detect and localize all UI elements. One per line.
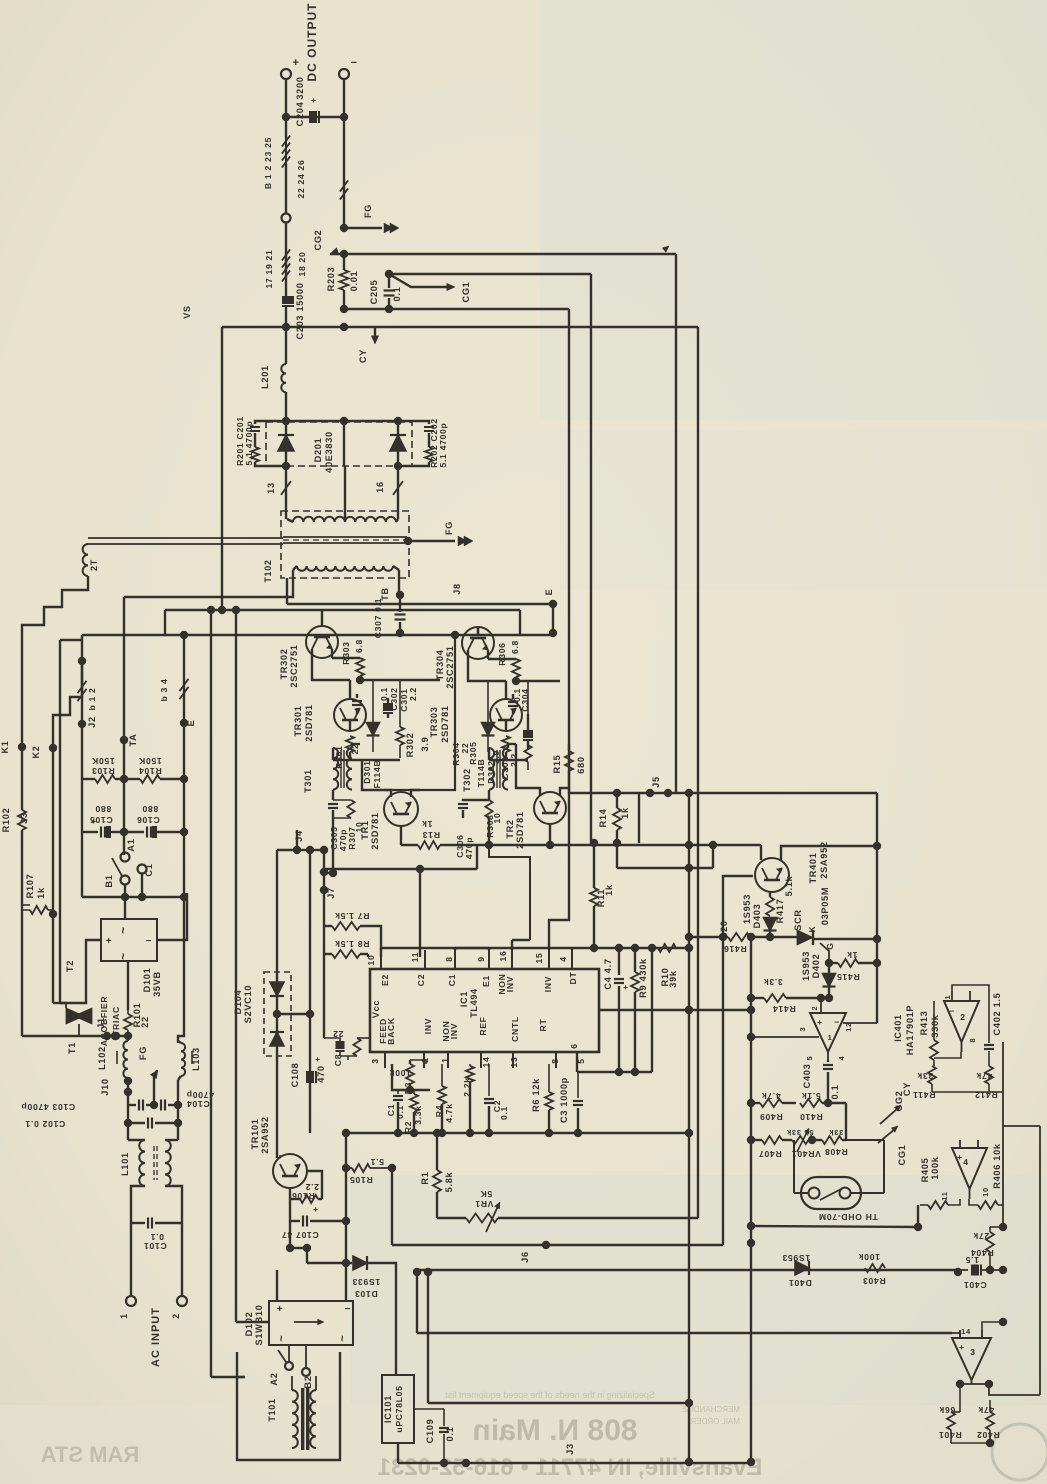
wire TR304 E branch: [477, 627, 479, 635]
capacitor C304 0.1: [512, 694, 514, 699]
wire TA line: [123, 597, 125, 855]
wire K2 down: [52, 748, 54, 1003]
svg-text:~: ~: [337, 1334, 349, 1341]
resistor R401 66k: [959, 1384, 961, 1412]
wire drive line y610: [165, 609, 520, 611]
svg-text:CY: CY: [358, 349, 368, 363]
svg-text:5K: 5K: [480, 1189, 492, 1199]
svg-text:680: 680: [576, 756, 586, 773]
svg-text:R4: R4: [434, 1105, 444, 1117]
svg-text:INV: INV: [449, 1023, 459, 1039]
terminal - DC output: [339, 69, 349, 79]
capacitor C2 0.1: [488, 1064, 490, 1096]
wire pin11 drop: [367, 954, 369, 957]
svg-text:T302: T302: [462, 768, 472, 792]
T102 core: [283, 536, 407, 538]
wire TR301 collector: [312, 658, 350, 680]
svg-text:R402: R402: [976, 1430, 999, 1440]
capacitor C4 4.7: [618, 948, 620, 975]
svg-text:TR101: TR101: [250, 1118, 260, 1149]
wire branch x520: [519, 610, 521, 635]
connector circle on + rail: [282, 214, 291, 223]
node J1: [103, 1032, 111, 1040]
resistor R5 2.2k: [469, 1064, 471, 1066]
resistor R203 0.01: [340, 270, 349, 290]
resistor R405 100k: [928, 1201, 948, 1209]
resistor R6 12k: [548, 1064, 550, 1092]
wire K1 down to triac: [21, 905, 23, 1036]
svg-text:C1: C1: [144, 863, 154, 876]
svg-text:2SD781: 2SD781: [370, 812, 380, 849]
T102 primary winding: [297, 566, 393, 571]
svg-text:5.1k: 5.1k: [801, 1091, 821, 1101]
wire L103 top: [178, 940, 184, 1041]
svg-text:TA: TA: [128, 734, 138, 747]
resistor R11 1k: [590, 839, 598, 847]
svg-text:17 19 21: 17 19 21: [264, 249, 274, 288]
wire TR303 collector: [468, 659, 506, 681]
svg-text:D402: D402: [811, 954, 821, 979]
svg-text:5.8k: 5.8k: [444, 1171, 454, 1192]
svg-text:D401: D401: [788, 1278, 811, 1288]
svg-text:0.01: 0.01: [349, 271, 359, 292]
svg-text:C102 0.1: C102 0.1: [25, 1119, 65, 1129]
wire + rail top: [285, 79, 287, 138]
svg-text:L102: L102: [97, 1046, 107, 1070]
svg-text:VR1: VR1: [475, 1199, 494, 1209]
svg-text:R407: R407: [758, 1149, 781, 1159]
svg-text:TRIAC: TRIAC: [111, 1006, 121, 1036]
wire TR401 base: [723, 876, 753, 1245]
wire TR2 base: [549, 824, 551, 845]
svg-text:C403: C403: [802, 1064, 812, 1089]
diode D401 1S953: [795, 1261, 809, 1275]
transistor TR401 2SA952: [755, 858, 789, 892]
svg-text:1k: 1k: [620, 807, 630, 819]
capacitor C3 1000p: [577, 1072, 579, 1098]
svg-text:C203 15000: C203 15000: [295, 282, 305, 339]
T102 primary left lead: [124, 570, 293, 597]
svg-text:TR1: TR1: [360, 820, 370, 839]
svg-text:S1WB10: S1WB10: [254, 1305, 264, 1346]
svg-text:−: −: [350, 57, 357, 69]
op-amp IC401 comparator 1: [810, 1013, 846, 1052]
wire drive left branch: [164, 610, 166, 635]
wire TR401 collector line y868: [617, 867, 713, 869]
op-amp IC401 comparator 4: [952, 1148, 987, 1189]
svg-text:TR303: TR303: [429, 706, 439, 737]
wire riser x392: [391, 1168, 393, 1245]
svg-text:L103: L103: [191, 1047, 201, 1071]
svg-text:15: 15: [534, 953, 544, 964]
svg-text:+: +: [959, 1342, 965, 1352]
svg-text:5.1: 5.1: [370, 1157, 384, 1167]
resistor R7 1.5k: [324, 925, 332, 927]
svg-text:E: E: [186, 720, 196, 727]
wire TR2 collector: [516, 744, 540, 796]
diode D402 1S953: [828, 962, 830, 973]
svg-text:Specializing in the needs of t: Specializing in the needs of the speed e…: [445, 1390, 655, 1400]
svg-text:2: 2: [810, 1006, 819, 1011]
svg-text:R13: R13: [422, 830, 440, 840]
capacitor C306 470p: [488, 790, 490, 800]
wire J4 vertical: [309, 850, 311, 1014]
svg-text:11: 11: [410, 952, 420, 962]
resistor R4 4.7k: [441, 1064, 443, 1086]
svg-text:16: 16: [375, 481, 385, 493]
svg-text:INV: INV: [543, 976, 553, 992]
svg-text:TR302: TR302: [279, 648, 289, 679]
wire - rail top: [343, 79, 345, 117]
resistor R303 6.8: [332, 657, 360, 659]
svg-text:−: −: [345, 1304, 352, 1315]
svg-text:150K: 150K: [91, 756, 114, 766]
node K1: [18, 743, 26, 751]
capacitor C8 22: [323, 958, 325, 1038]
transistor TR304 2SC2751: [462, 627, 494, 659]
wire T302 bottom: [488, 818, 490, 845]
capacitor C103 4700p: [128, 1104, 136, 1106]
svg-text:J1: J1: [96, 1017, 106, 1029]
wire TR101 collector top: [276, 1110, 278, 1158]
svg-text:C307 0.1: C307 0.1: [373, 598, 383, 638]
diode D302 T114B: [487, 681, 489, 722]
svg-text:3.9: 3.9: [420, 737, 430, 752]
thyristor SCR 03P05M: [770, 936, 797, 938]
svg-text:+: +: [292, 57, 299, 69]
svg-text:−: −: [834, 1017, 840, 1027]
resistor R102 33: [21, 747, 23, 810]
svg-text:J10: J10: [100, 1078, 110, 1095]
svg-text:DT: DT: [568, 972, 578, 985]
svg-text:R103: R103: [91, 766, 114, 776]
svg-text:1k: 1k: [604, 884, 614, 896]
svg-text:22: 22: [140, 1016, 150, 1028]
svg-text:1S933: 1S933: [352, 1277, 380, 1287]
svg-text:+: +: [315, 1054, 321, 1064]
svg-text:+: +: [311, 95, 317, 105]
svg-text:INV: INV: [423, 1018, 433, 1034]
svg-text:TL494: TL494: [469, 988, 479, 1018]
snubber R201 C201: [255, 421, 286, 424]
svg-text:+: +: [277, 1304, 284, 1315]
svg-text:D103: D103: [354, 1289, 377, 1299]
IC1 pin stubs top: [380, 950, 382, 969]
wire J5 to comparator rail x877: [876, 793, 878, 1023]
node K2: [49, 744, 57, 752]
svg-text:C1: C1: [447, 974, 457, 986]
wire E line left: [183, 723, 185, 940]
labels CY CG2 arrows: [880, 1108, 898, 1124]
T101 enclosure: [237, 1352, 340, 1460]
wire bus x236 to D102: [232, 606, 240, 614]
resistor R308 10: [485, 800, 492, 818]
svg-text:C109: C109: [425, 1419, 435, 1444]
resistor R417 5.1k: [769, 892, 771, 897]
svg-text:D102: D102: [244, 1312, 254, 1337]
svg-text:C205: C205: [369, 280, 379, 305]
inductor L102: [123, 1041, 128, 1078]
svg-text:R303: R303: [341, 641, 351, 664]
wire switch bottoms: [124, 884, 126, 919]
svg-text:R1: R1: [420, 1171, 430, 1184]
resistor R413 330k: [930, 1040, 938, 1060]
resistor R307 10: [333, 799, 351, 801]
resistor R10 39k: [658, 944, 676, 952]
svg-text:b 1 2: b 1 2: [87, 687, 97, 710]
svg-text:C107 47: C107 47: [281, 1230, 318, 1240]
svg-text:+: +: [957, 1152, 963, 1162]
capacitor C403 0.1: [827, 1060, 829, 1062]
wire 2T staircase to K1: [22, 576, 88, 747]
wire comp1 pin2 up: [820, 998, 822, 1013]
inductor L101: [139, 1140, 145, 1186]
svg-text:INV: INV: [505, 976, 515, 992]
svg-text:4.7k: 4.7k: [761, 1091, 781, 1101]
wire D104 tap: [277, 1013, 310, 1015]
wire J5 line: [569, 792, 877, 794]
svg-text:2SD781: 2SD781: [440, 705, 450, 742]
svg-text:D104: D104: [233, 989, 243, 1014]
svg-text:2: 2: [960, 1012, 965, 1022]
svg-text:E2: E2: [380, 974, 390, 986]
capacitor C109 0.1: [397, 1443, 399, 1463]
wire pin10 up: [380, 948, 382, 950]
transistor TR1 2SD781: [384, 792, 418, 826]
svg-text:880: 880: [95, 804, 111, 814]
svg-text:10: 10: [981, 1187, 990, 1197]
svg-text:R413: R413: [919, 1011, 929, 1036]
transistor TR303 2SD781: [490, 699, 522, 731]
wire pin9 up: [488, 948, 490, 950]
svg-text:CG2: CG2: [313, 230, 323, 251]
wire K node to rail: [829, 938, 877, 940]
svg-text:TR2: TR2: [505, 819, 515, 838]
svg-text:RAM STA: RAM STA: [41, 1442, 140, 1467]
svg-text:+: +: [91, 816, 97, 826]
wire pin16 up: [511, 940, 513, 950]
wire long line y1244 J6: [392, 1244, 723, 1246]
bridge rectifier D101 35VB: [101, 919, 157, 961]
resistor R402 47k: [986, 1412, 994, 1430]
resistor R105 5.1: [346, 1167, 352, 1169]
svg-text:R15: R15: [552, 755, 562, 774]
resistor R101 22: [127, 1010, 129, 1014]
svg-text:4: 4: [558, 956, 568, 961]
svg-text:IC401: IC401: [893, 1014, 903, 1042]
svg-text:C8: C8: [333, 1054, 343, 1066]
svg-text:G: G: [825, 942, 835, 949]
svg-text:5.1 4700p: 5.1 4700p: [438, 422, 448, 467]
svg-text:1k: 1k: [422, 819, 433, 829]
capacitor C307 0.1: [399, 595, 401, 612]
svg-text:C106: C106: [136, 815, 159, 825]
svg-text:−: −: [146, 936, 153, 947]
svg-text:33k: 33k: [917, 1071, 933, 1081]
wire line y1227 TH net: [751, 1226, 918, 1227]
svg-text:R414: R414: [772, 1004, 795, 1014]
wire TR1 collector: [362, 760, 391, 797]
svg-text:4: 4: [963, 1157, 968, 1167]
svg-text:B2: B2: [303, 1375, 313, 1388]
inductor L201: [285, 328, 287, 364]
resistor R409 4.7k: [751, 1102, 760, 1104]
wire b34 line top: [183, 635, 185, 664]
transistor TR301 2SD781: [334, 699, 366, 731]
T102 secondary winding: [285, 474, 287, 519]
svg-text:22 24 26: 22 24 26: [296, 159, 306, 198]
svg-text:AC INPUT: AC INPUT: [150, 1307, 162, 1367]
svg-text:VR401: VR401: [791, 1149, 821, 1159]
svg-text:J3: J3: [565, 1443, 575, 1455]
svg-text:IC1: IC1: [459, 991, 469, 1007]
svg-text:8: 8: [968, 1038, 977, 1043]
svg-text:A2: A2: [269, 1372, 279, 1385]
svg-text:+: +: [623, 982, 629, 992]
svg-text:16: 16: [498, 951, 508, 962]
label CG1 with arrow: [389, 274, 452, 287]
wire long line y1270 D401 net: [417, 1269, 958, 1271]
svg-text:0.1: 0.1: [150, 1232, 164, 1242]
wire filter rails: [127, 1105, 129, 1140]
wire line y1333 comp5 input: [417, 1332, 952, 1334]
svg-text:10: 10: [492, 813, 502, 824]
wire ground bus under IC1: [346, 1132, 689, 1134]
svg-text:CG2: CG2: [894, 1091, 904, 1112]
svg-text:R6 12k: R6 12k: [531, 1078, 541, 1112]
svg-text:R104: R104: [138, 766, 161, 776]
svg-text:+: +: [817, 1017, 823, 1027]
svg-text:33k: 33k: [829, 1128, 844, 1137]
svg-text:100k: 100k: [930, 1156, 940, 1179]
wire comp1 left input: [751, 1036, 819, 1038]
wires comp2: [933, 1001, 935, 1023]
wire E bus horizontal: [82, 634, 553, 636]
svg-text:2SD781: 2SD781: [515, 811, 525, 848]
svg-text:C108: C108: [290, 1063, 300, 1088]
resistor R302 3.9: [399, 680, 401, 727]
wire E horizontal to transformer: [287, 603, 553, 605]
svg-text:R417: R417: [775, 899, 785, 924]
IC IC1 TL494 body: [370, 969, 599, 1052]
wire comp4 net: [990, 1226, 1003, 1228]
resistor R305: [527, 681, 529, 714]
wire VS vertical bus right: [697, 327, 699, 1218]
svg-text:DC OUTPUT: DC OUTPUT: [305, 3, 319, 82]
wire comp1 right input: [843, 1022, 877, 1024]
svg-text:2SD781: 2SD781: [304, 704, 314, 741]
svg-text:−: −: [949, 1006, 955, 1016]
svg-text:C3 1000p: C3 1000p: [559, 1077, 569, 1123]
svg-text:3: 3: [798, 1027, 807, 1032]
IC1 pin stubs bottom: [384, 1052, 386, 1068]
svg-text:R105: R105: [349, 1175, 372, 1185]
capacitor C205 0.1: [385, 270, 393, 278]
connector slashes pins 17-21: [282, 249, 290, 260]
svg-text:R3: R3: [403, 1082, 413, 1094]
svg-text:820: 820: [719, 920, 729, 937]
wire CG2 line: [330, 253, 676, 255]
resistor R13 1k: [411, 790, 420, 797]
svg-text:+: +: [106, 936, 113, 947]
wire left outer: [59, 640, 61, 1003]
thermostat TH OHD-70M: [801, 1177, 861, 1209]
svg-text:2.2: 2.2: [408, 687, 418, 701]
connector slashes pins 22 24 26: [343, 117, 345, 183]
resistor R415 1k: [829, 962, 838, 964]
capacitor C402 1.5: [984, 1044, 994, 1046]
svg-text:3: 3: [370, 1058, 380, 1063]
wire TH line right end: [914, 1223, 922, 1231]
resistor R304 22: [502, 736, 510, 752]
svg-text:B 1 2 23 25: B 1 2 23 25: [263, 137, 273, 189]
svg-text:11: 11: [940, 1191, 949, 1200]
svg-text:D201: D201: [313, 438, 323, 463]
capacitor C104 4700p: [154, 1104, 158, 1106]
svg-text:L201: L201: [260, 365, 270, 389]
wire riser x428: [427, 1272, 429, 1403]
wire main right rail: [688, 793, 690, 1462]
wire TR301 emitter join: [349, 752, 351, 760]
wire T301 bottom to J4: [332, 818, 334, 873]
capacitor C401 1.5: [971, 1265, 979, 1276]
svg-text:uPC78L05: uPC78L05: [394, 1385, 404, 1432]
svg-text:18 20: 18 20: [297, 251, 307, 276]
resistor R104 150K: [124, 778, 140, 780]
resistor R416 820: [689, 936, 728, 938]
svg-text:T102: T102: [263, 559, 273, 582]
wire center tap upper: [343, 421, 345, 466]
svg-text:13: 13: [266, 482, 276, 494]
wire D101 minus to E: [157, 893, 187, 940]
svg-text:R409: R409: [759, 1112, 782, 1122]
resistor R14 1k: [616, 793, 618, 808]
wire CY line: [340, 305, 348, 313]
svg-text:D403: D403: [752, 904, 762, 929]
svg-text:1S953: 1S953: [801, 951, 811, 981]
diode D103 1S933: [307, 1262, 352, 1264]
capacitor C105 880: [82, 831, 98, 833]
capacitor C101 0.1: [131, 1186, 145, 1223]
svg-text:1: 1: [943, 995, 952, 1000]
svg-text:F114B: F114B: [372, 760, 382, 789]
wire comp5 inputs: [952, 1333, 960, 1338]
shield winding 2T: [83, 544, 88, 576]
svg-text:C402 1.5: C402 1.5: [992, 993, 1002, 1036]
wire TR101 base: [307, 1171, 322, 1199]
svg-text:2.2k: 2.2k: [462, 1077, 472, 1097]
svg-text:R401: R401: [938, 1430, 961, 1440]
svg-text:0.1: 0.1: [395, 1105, 405, 1119]
svg-text:FG: FG: [363, 204, 373, 218]
wire y1403 tie line: [428, 1402, 689, 1404]
svg-text:Evansville, IN 47711 • 616-52-: Evansville, IN 47711 • 616-52-0231: [378, 1454, 763, 1481]
wire K2 staircase: [53, 661, 82, 748]
wire right rail x1003: [1002, 1042, 1004, 1227]
wire comp5 output right: [989, 1384, 1040, 1395]
capacitor C305 470p: [332, 790, 334, 800]
label CY with arrow: [374, 327, 376, 339]
resistor R1 5.8k: [436, 1133, 438, 1170]
T102 primary right lead TB: [398, 570, 400, 595]
svg-text:1S953: 1S953: [742, 894, 752, 924]
resistor R103 150K: [82, 778, 95, 780]
svg-text:S2VC10: S2VC10: [243, 985, 253, 1023]
op-amp IC401 comparator 3: [952, 1338, 991, 1380]
resistor R306 6.8: [488, 658, 516, 660]
switch A2 B2: [285, 1362, 293, 1370]
connector slashes J2 b 1 2: [78, 681, 87, 693]
